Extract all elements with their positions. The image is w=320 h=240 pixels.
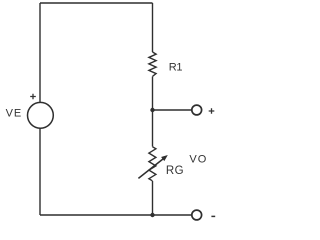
wire left upper [39,3,41,102]
wire right upper [152,3,154,52]
svg-text:VO: VO [189,153,207,165]
wire top [40,2,153,4]
wire right middle [152,77,154,147]
arrow of RG [138,159,163,179]
svg-text:VE: VE [6,108,23,120]
terminal plus [192,105,202,115]
node junction bottom [150,213,154,217]
node junction top [150,108,154,112]
terminal minus [192,210,202,220]
wire left lower [39,128,41,215]
plus sign of output [209,108,215,114]
resistor R1 [149,52,156,76]
source VE [28,102,54,128]
wire right lower [152,181,154,215]
minus sign of output [211,215,215,217]
plus sign of VE [30,94,36,100]
wire bottom [40,214,192,216]
svg-text:R1: R1 [169,61,183,73]
wire to plus terminal [153,109,193,111]
svg-text:RG: RG [166,165,184,177]
rheostat RG [149,147,156,181]
